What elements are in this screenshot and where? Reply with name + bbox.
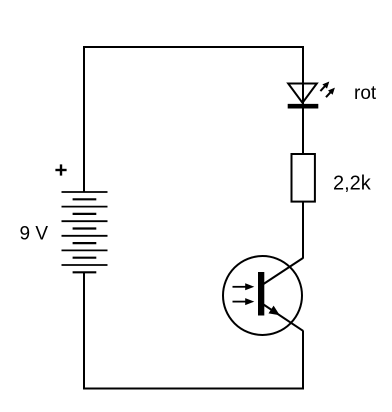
wire right vertical through LED to resistor top bbox=[302, 46, 304, 155]
wire top horizontal rail bbox=[83, 46, 304, 48]
phototransistor circle bbox=[223, 256, 302, 335]
LED light arrow 1 bbox=[320, 82, 329, 92]
svg-text:9 V: 9 V bbox=[20, 224, 49, 245]
LED D1 triangle (anode) bbox=[288, 84, 317, 103]
phototransistor light arrow 1 bbox=[233, 283, 255, 290]
battery 9V plates bbox=[62, 192, 108, 272]
wire left vertical top (battery + to top rail) bbox=[83, 46, 85, 193]
wire battery - to bottom rail bbox=[83, 272, 85, 389]
phototransistor emitter arrowhead bbox=[269, 306, 280, 316]
wire bottom horizontal rail bbox=[83, 388, 304, 390]
wire emitter to bottom rail bbox=[302, 331, 304, 390]
phototransistor base bar bbox=[258, 272, 264, 316]
resistor 2,2k body bbox=[292, 154, 315, 202]
phototransistor light arrow 2 bbox=[233, 298, 255, 305]
phototransistor emitter lead bbox=[264, 305, 304, 331]
LED D1 cathode bar bbox=[288, 104, 319, 109]
battery plus sign bbox=[55, 164, 66, 175]
svg-text:2,2k: 2,2k bbox=[333, 173, 372, 195]
wire resistor bottom to transistor collector bbox=[302, 201, 304, 259]
svg-text:rot: rot bbox=[354, 83, 377, 104]
LED light arrow 2 bbox=[326, 88, 335, 98]
phototransistor collector lead bbox=[264, 258, 304, 284]
